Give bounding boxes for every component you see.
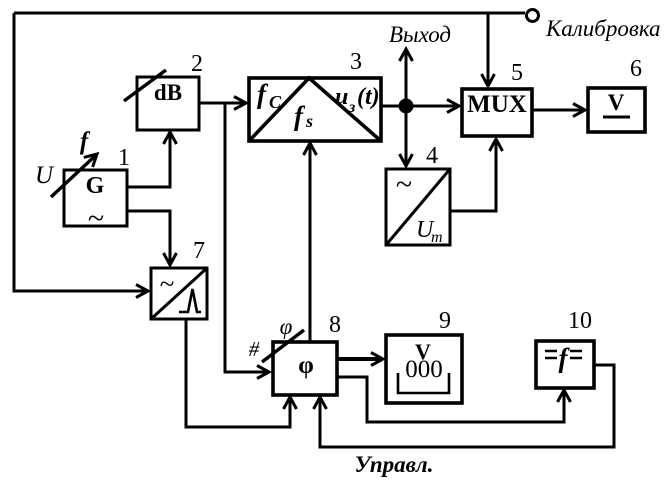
svg-text:m: m (431, 229, 443, 246)
wire: block 8 lower output to block 10 bottom (337, 377, 571, 422)
adjustment slash on dB (124, 70, 166, 101)
svg-text:U: U (35, 162, 55, 189)
wire: branch from dB output down to phase block 8 input (225, 103, 269, 379)
svg-text:з: з (348, 99, 355, 116)
wire: junction up arrow (Выход) (400, 49, 413, 106)
svg-text:~: ~ (396, 168, 412, 201)
svg-text:8: 8 (329, 312, 341, 338)
wire: block 3 output to MUX with junction (381, 100, 459, 113)
voltmeter V (block 6) (588, 88, 645, 132)
wire: block 8 output to indicator 9 (thick) (337, 353, 383, 366)
multiplexer MUX (block 5) (462, 89, 532, 136)
svg-text:Калибровка: Калибровка (545, 16, 661, 41)
svg-text:u: u (335, 84, 348, 110)
junction node (399, 99, 414, 114)
wire: MUX output to voltmeter 6 (532, 104, 585, 117)
svg-text:4: 4 (426, 143, 438, 169)
wire: G lower output down to block 7 top (127, 211, 177, 265)
phase shifter φ (block 8) (273, 342, 337, 395)
frequency meter block 10 (=f=) (536, 341, 594, 388)
modulator block 3 (fc fs uз(t)) (249, 78, 381, 141)
wire: block 10 output down along bottom back to block 8 (314, 365, 615, 447)
svg-text:#: # (249, 337, 260, 361)
wire: junction down to block 4 (400, 106, 413, 166)
svg-text:5: 5 (511, 60, 523, 86)
wire: dB output to block 3 (199, 97, 246, 110)
wire: G upper output to dB bottom (127, 132, 177, 187)
svg-text:C: C (269, 92, 282, 112)
svg-text:G: G (86, 173, 105, 199)
svg-text:10: 10 (568, 308, 592, 334)
svg-text:MUX: MUX (467, 91, 527, 118)
selective converter block 7 (~ / pulse) (151, 268, 207, 319)
wire: block 8 top output up to block 3 bottom (304, 143, 317, 342)
generator G (block 1) (64, 170, 127, 235)
wire: drop from top line into MUX top (482, 13, 495, 86)
svg-text:φ: φ (298, 352, 314, 379)
svg-text:000: 000 (405, 356, 443, 383)
svg-text:2: 2 (191, 51, 203, 77)
wire: top calibration line (14, 12, 525, 15)
svg-text:dB: dB (154, 80, 182, 105)
adjustment arrow f over G (51, 149, 101, 197)
wire: block 4 output to MUX bottom (450, 139, 503, 211)
svg-text:1: 1 (118, 145, 130, 171)
svg-text:Управл.: Управл. (355, 452, 434, 477)
svg-text:9: 9 (439, 308, 451, 334)
svg-text:6: 6 (630, 56, 642, 82)
svg-text:(t): (t) (357, 84, 380, 110)
wire: block 7 output down and right to block 8 bottom (186, 319, 297, 427)
detector block 4 (~ / Um) (386, 168, 450, 246)
svg-text:3: 3 (350, 49, 362, 75)
svg-text:~: ~ (88, 202, 104, 235)
wire: left feedback from top line down to block 7 input (14, 13, 148, 298)
svg-text:~: ~ (160, 269, 175, 299)
svg-text:Выход: Выход (389, 22, 451, 47)
attenuator dB (block 2) (137, 77, 199, 130)
indicator block 9 (V 000) (386, 335, 462, 403)
svg-text:s: s (305, 111, 313, 131)
adjustment slash on block 8 (262, 330, 304, 362)
node: calibration terminal circle (527, 10, 539, 22)
svg-text:φ: φ (280, 314, 293, 339)
svg-text:7: 7 (193, 238, 205, 264)
svg-text:V: V (608, 90, 625, 115)
